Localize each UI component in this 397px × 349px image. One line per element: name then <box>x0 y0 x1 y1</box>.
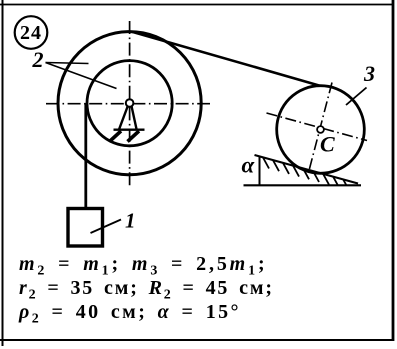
pulley 2 outer circle <box>58 32 201 175</box>
frame left border <box>2 0 4 346</box>
label 1 leader <box>91 220 122 234</box>
label 2 leader to rim <box>46 63 89 64</box>
pin circle at pulley axle <box>126 99 134 107</box>
svg-text:m2 = m1; m3 = 2,5m1;: m2 = m1; m3 = 2,5m1; <box>19 253 267 279</box>
frame right border <box>392 0 395 341</box>
pulley 2 horizontal centerline <box>46 103 210 105</box>
rope from pulley to block <box>84 103 87 208</box>
pin support triangle <box>114 107 145 130</box>
frame top border <box>0 4 394 6</box>
frame bottom border <box>0 339 394 341</box>
badge circle 24 <box>15 16 48 49</box>
pulley 2 inner circle <box>87 61 172 146</box>
incline base horizontal line <box>244 184 362 186</box>
svg-text:α: α <box>242 153 256 178</box>
disk 3 center pin <box>317 126 324 133</box>
svg-text:3: 3 <box>363 61 375 86</box>
disk 3 axis perpendicular to incline <box>309 83 333 173</box>
svg-text:24: 24 <box>20 22 42 44</box>
svg-text:ρ2 = 40 см; α = 15°: ρ2 = 40 см; α = 15° <box>18 301 241 327</box>
svg-text:1: 1 <box>125 209 136 233</box>
incline vertical side <box>259 156 261 185</box>
block 1 <box>68 209 103 247</box>
disk 3 circle <box>277 86 365 174</box>
incline hatching <box>263 158 349 191</box>
pin support hatching <box>110 131 140 142</box>
pulley 2 vertical centerline <box>129 21 131 188</box>
label 2 leader to inner circle <box>46 63 117 89</box>
svg-text:r2 = 35 см; R2 = 45 см;: r2 = 35 см; R2 = 45 см; <box>19 277 274 303</box>
rope from pulley top to disk 3 <box>132 32 320 86</box>
disk 3 axis along incline <box>267 113 368 141</box>
svg-text:C: C <box>320 132 335 157</box>
svg-text:2: 2 <box>32 47 44 72</box>
incline surface line <box>255 155 359 184</box>
label 3 leader <box>346 88 367 106</box>
